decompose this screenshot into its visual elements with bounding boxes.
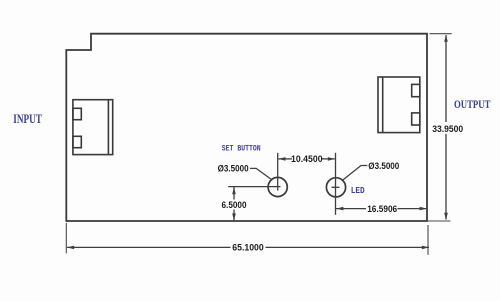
dim 16.5906 left arrow: [336, 207, 343, 211]
dim 65.1000 right arrow: [422, 246, 429, 250]
dim 6.5000 top arrow: [232, 187, 236, 194]
dim 10.4500 line right segment: [322, 158, 335, 160]
output connector pin 1: [412, 84, 420, 96]
svg-text:10.4500: 10.4500: [291, 154, 323, 164]
centerline horizontal from button center to 6.5 dim: [228, 186, 280, 188]
extension line bottom left for 65.1: [65, 223, 67, 253]
dim 6.5000 vertical line upper segment: [233, 187, 235, 200]
svg-text:6.5000: 6.5000: [222, 200, 247, 210]
dim 16.5906 line right segment: [398, 208, 428, 210]
dim 33.9500 vertical upper segment: [445, 35, 447, 122]
dim 10.4500 right arrow: [328, 157, 335, 161]
dim 10.4500 line left segment: [279, 158, 293, 160]
dim 65.1000 line right segment: [266, 246, 430, 248]
led hole circle: [326, 178, 345, 197]
svg-text:INPUT: INPUT: [13, 111, 42, 126]
led center tick: [332, 186, 340, 188]
dim 16.5906 right arrow: [420, 207, 427, 211]
dim 33.9500 vertical lower segment: [445, 134, 447, 220]
extension line bottom right for 65.1: [427, 225, 429, 255]
svg-text:SET BUTTON: SET BUTTON: [222, 144, 261, 153]
set button hole circle: [268, 177, 287, 196]
dim 33.9500 bottom arrow: [444, 213, 448, 220]
dim 33.9500 top arrow: [444, 35, 448, 42]
leader for left hole dia: [250, 168, 272, 179]
centerline vertical through button: [277, 153, 279, 191]
dim 65.1000 line left segment: [67, 246, 231, 248]
svg-text:Ø3.5000: Ø3.5000: [218, 164, 249, 174]
output connector inner line: [382, 77, 384, 133]
centerline vertical through led: [335, 153, 337, 215]
extension line top right for 33.95: [430, 33, 452, 35]
output connector J2 body: [378, 77, 420, 133]
svg-text:16.5906: 16.5906: [367, 204, 397, 214]
input connector inner line: [107, 100, 109, 155]
svg-text:OUTPUT: OUTPUT: [454, 97, 490, 111]
dim 65.1000 left arrow: [67, 246, 74, 250]
leader for right hole dia: [343, 166, 368, 181]
input connector J1 body: [73, 100, 113, 155]
dim 6.5000 bottom arrow: [232, 213, 236, 220]
dim 10.4500 left arrow: [278, 157, 285, 161]
input connector pin 1: [73, 108, 81, 119]
output connector pin 2: [412, 113, 420, 125]
dim 6.5000 vertical line lower segment: [233, 210, 235, 221]
svg-text:65.1000: 65.1000: [232, 243, 264, 253]
extension line bottom right for 33.95: [427, 220, 450, 222]
svg-text:33.9500: 33.9500: [432, 124, 463, 134]
svg-text:LED: LED: [351, 186, 366, 196]
dim 16.5906 line left segment: [336, 208, 366, 210]
svg-text:Ø3.5000: Ø3.5000: [368, 161, 399, 171]
board outline (stepped top-left corner): [66, 34, 427, 221]
input connector pin 2: [73, 136, 81, 147]
